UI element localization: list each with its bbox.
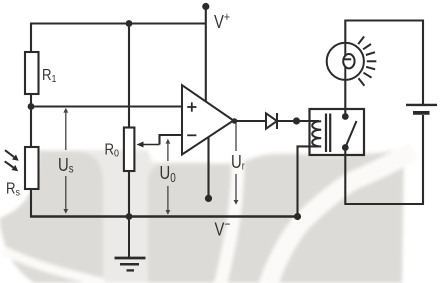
relay coil — [312, 121, 321, 146]
potentiometer wiper arrow — [137, 142, 160, 148]
wire switch bottom to battery minus — [345, 115, 423, 204]
photoresistor Rs — [25, 147, 39, 189]
svg-text:R0: R0 — [105, 142, 120, 160]
node R0 top rail — [126, 20, 133, 27]
op-amp minus input sign — [187, 134, 196, 136]
relay core lines — [325, 114, 327, 153]
node diode-relay junction — [293, 117, 300, 124]
wire op-amp output to diode — [234, 120, 267, 122]
wire relay coil return — [298, 146, 319, 216]
ground — [115, 217, 146, 271]
wire bottom rail V- — [30, 215, 298, 217]
wire R0 branch from top rail — [128, 24, 130, 128]
svg-text:R1: R1 — [42, 67, 56, 85]
wire Rs bottom to bottom rail — [30, 189, 32, 218]
node R1/Rs divider — [28, 103, 35, 110]
diode D1 — [266, 113, 277, 129]
measurement arrow U0 — [166, 139, 171, 215]
relay switch blade — [345, 121, 356, 148]
lamp L1 — [327, 43, 364, 80]
wire inverting input with step to wiper — [160, 135, 183, 145]
measurement arrow Ur — [234, 123, 239, 205]
svg-text:Rs: Rs — [6, 181, 20, 199]
wire diode cathode to relay coil — [277, 120, 319, 122]
wire left vertical (top rail to R1) — [30, 23, 32, 53]
potentiometer R0 — [124, 128, 134, 172]
node ground junction — [126, 213, 133, 220]
battery B1 — [406, 105, 437, 113]
wire top rail V+ — [31, 22, 206, 24]
node V+ terminal — [202, 3, 209, 10]
wire R0 bottom to bottom rail — [128, 171, 130, 217]
relay K1 box — [310, 109, 365, 155]
node bottom rail right end — [294, 213, 301, 220]
node op-amp negative supply terminal — [205, 195, 212, 202]
wire lamp to switch top — [344, 80, 346, 117]
wire R1 bottom to node — [30, 94, 32, 147]
op-amp U1 — [182, 85, 234, 154]
light arrows at Rs — [5, 150, 19, 171]
wire op-amp negative supply — [207, 138, 209, 199]
resistor R1 — [25, 52, 39, 94]
measurement arrow Us — [63, 108, 68, 214]
node op-amp output — [232, 118, 238, 124]
wire non-inverting input — [31, 105, 182, 107]
wire top right rail from lamp to battery plus — [345, 21, 423, 105]
lamp rays — [358, 37, 376, 86]
relay switch contact dots — [342, 113, 349, 120]
svg-text:V+: V+ — [214, 10, 230, 32]
wire V+ stub and op-amp positive supply — [205, 7, 207, 103]
op-amp plus input sign — [187, 102, 196, 135]
